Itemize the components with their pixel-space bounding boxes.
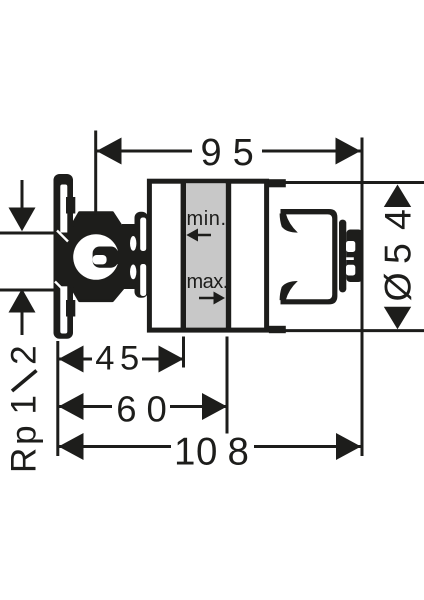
svg-text:max.: max. [187,271,228,293]
svg-text:95: 95 [201,132,265,174]
svg-text:Ø54: Ø54 [377,209,419,301]
svg-text:45: 45 [95,340,144,378]
svg-text:60: 60 [116,389,177,430]
svg-text:Rp12: Rp12 [5,345,44,473]
svg-text:min.: min. [187,208,227,230]
svg-text:108: 108 [174,431,249,474]
